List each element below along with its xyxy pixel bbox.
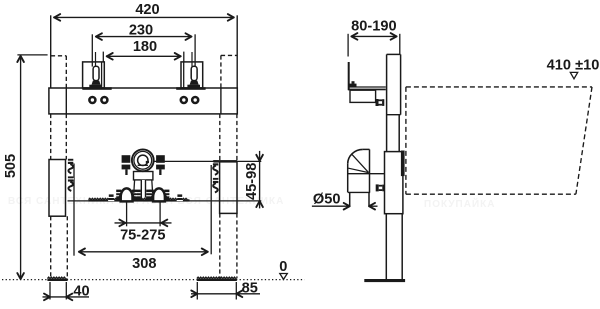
- svg-text:40: 40: [73, 283, 89, 299]
- svg-text:308: 308: [132, 256, 156, 272]
- svg-text:ПОКУПАЙКА: ПОКУПАЙКА: [424, 197, 495, 210]
- svg-text:420: 420: [135, 2, 159, 18]
- svg-text:0: 0: [279, 259, 287, 275]
- svg-text:80-190: 80-190: [351, 18, 396, 34]
- svg-text:75-275: 75-275: [120, 228, 165, 244]
- svg-text:Ø50: Ø50: [313, 192, 341, 208]
- svg-text:45-98: 45-98: [244, 163, 260, 200]
- svg-text:410 ±10: 410 ±10: [547, 58, 600, 74]
- svg-text:230: 230: [129, 23, 153, 39]
- svg-text:85: 85: [242, 280, 258, 296]
- svg-text:180: 180: [133, 39, 157, 55]
- svg-text:505: 505: [3, 154, 19, 178]
